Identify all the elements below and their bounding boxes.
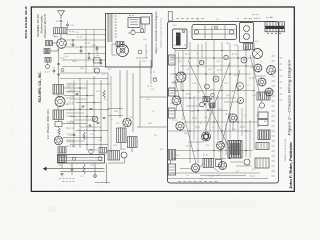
chassis wire h7 xyxy=(168,110,228,112)
bus wire 7 xyxy=(62,66,106,68)
cathode bypass cap C2a xyxy=(57,63,60,65)
socket small b xyxy=(213,76,219,82)
wire coil to V1 xyxy=(60,34,62,39)
cross wire h4 xyxy=(64,109,109,111)
bus wire 5 xyxy=(64,53,106,55)
fig2 bottom extra wires xyxy=(180,168,191,170)
oscillator trimmer C2 xyxy=(66,24,69,26)
right edge label column xyxy=(272,55,275,57)
screen wire vertical xyxy=(132,73,134,132)
tube socket V3 xyxy=(258,78,266,86)
tuning condenser drive assembly xyxy=(192,25,237,40)
fig1 ladder vertical drop a xyxy=(85,30,87,74)
chassis corner tab xyxy=(168,12,172,22)
fig2 socket stub wires xyxy=(180,82,182,91)
cross wire h1 xyxy=(64,87,88,89)
tube socket V8 xyxy=(229,114,237,122)
transformer lead cluster xyxy=(244,44,255,50)
cross wire h8 xyxy=(63,137,101,139)
power transformer bottom blob xyxy=(228,141,242,159)
terminal board caption marks xyxy=(252,14,255,16)
2nd IF transformer T2 xyxy=(53,110,64,120)
inset link wire down xyxy=(150,67,152,84)
condenser section ticks xyxy=(204,26,206,39)
socket h xyxy=(238,98,244,104)
B+ wire vertical xyxy=(119,70,121,118)
inset speaker SPKR xyxy=(117,45,129,57)
coupling cap C11 xyxy=(89,124,92,126)
AVC resistor R3 xyxy=(58,128,61,135)
fig1 to fig2 link wire a xyxy=(140,96,167,98)
wire vertical v2 xyxy=(80,47,82,51)
field coil L3 xyxy=(128,137,138,148)
detector tube V3 6Q7 xyxy=(54,136,62,144)
chassis wire diagonal 1 xyxy=(205,62,230,130)
wire bottom run xyxy=(95,182,110,184)
pilot lamp circle xyxy=(72,157,75,160)
grid resistor R1 xyxy=(46,41,53,46)
cross wire h9 xyxy=(70,144,108,146)
chassis wire h2 xyxy=(170,57,254,59)
wire h output 2 xyxy=(108,115,123,117)
chassis outline xyxy=(168,22,279,184)
dial pointer circle xyxy=(98,157,102,161)
bottom label row fig1 xyxy=(59,178,61,180)
coupling cap C10 xyxy=(82,105,85,107)
transformer terminal circle 1 xyxy=(244,26,250,32)
inset wires xyxy=(132,28,134,31)
chassis wire v2 xyxy=(182,50,184,120)
values label column fig1 xyxy=(67,85,69,87)
chassis wire h9 xyxy=(168,130,249,132)
socket i xyxy=(244,159,250,165)
inset label xyxy=(129,15,131,17)
fig2 extra horizontals xyxy=(172,81,182,83)
cross wire h5 xyxy=(70,116,94,118)
bypass cap C5 xyxy=(88,56,91,58)
bus wire 4 xyxy=(66,46,105,48)
chassis wire v10 xyxy=(245,46,247,157)
hangdown resistor Rc xyxy=(83,164,85,174)
antenna coil shield box xyxy=(173,29,188,49)
grommet a xyxy=(199,60,204,65)
cathode resistor R2 xyxy=(44,49,50,54)
grommet d xyxy=(224,55,228,59)
outside edge labels xyxy=(280,57,283,59)
fig1 to fig2 link wire b xyxy=(137,126,167,128)
hangdown cap Ca xyxy=(61,163,63,169)
wire ant to coil xyxy=(60,22,62,28)
tone control block xyxy=(58,147,66,153)
plate resistor R11 xyxy=(83,132,85,140)
fig1 wire y84 xyxy=(66,83,111,85)
hangdown wire d xyxy=(94,163,96,178)
wire to chassis fig xyxy=(106,163,108,184)
tube socket V6 dark xyxy=(202,132,211,141)
grommet c xyxy=(205,84,210,89)
tube socket V10 xyxy=(219,162,227,170)
wire R1 to V1 xyxy=(53,42,57,44)
electrolytic can C20 xyxy=(253,49,263,59)
chassis wire v7 xyxy=(221,42,223,160)
power switch S1 xyxy=(108,151,120,161)
wires inset to chain xyxy=(105,29,108,31)
fig1 extra caps center xyxy=(76,93,79,95)
right rail terminal strip xyxy=(256,143,269,150)
fig1 extra horizontals xyxy=(66,91,80,93)
fig1 right vertical wire xyxy=(139,60,141,127)
coupling cap C7 xyxy=(100,62,103,64)
cathode chain cap C2b xyxy=(57,73,60,75)
dial lamp left block xyxy=(58,155,66,162)
fig1 extra vertical wire g xyxy=(110,76,112,152)
cross wire h6 xyxy=(62,123,87,125)
bus wire 3 xyxy=(66,39,105,41)
inset extra parts right xyxy=(138,50,142,54)
wire T2 chain xyxy=(58,120,60,122)
wire V4 plate xyxy=(126,70,128,118)
label osc values xyxy=(69,31,71,33)
power supply inset box xyxy=(106,14,153,68)
chassis wire v9 xyxy=(237,46,239,150)
chassis wire diagonal 2 xyxy=(188,60,230,150)
phono wire 2 xyxy=(60,171,105,173)
fig2 bottom strip cluster xyxy=(203,159,214,168)
fig2 extra partial verticals xyxy=(178,52,180,72)
IF can socket K xyxy=(265,88,273,96)
inset rectifier box xyxy=(128,18,140,28)
chassis wire h12 xyxy=(170,172,260,174)
wire vertical v4 xyxy=(96,47,98,48)
socket f xyxy=(237,83,244,90)
tube socket V4 xyxy=(172,96,181,105)
scan shadow left edge xyxy=(10,0,12,226)
antenna coupling cap C1 xyxy=(60,20,63,22)
wire V4 to T4 xyxy=(120,127,122,128)
center grid vertical wire b xyxy=(86,80,88,150)
chassis wire h1 xyxy=(175,50,250,52)
chassis wire h6 xyxy=(178,97,236,99)
chassis wire diagonal 5 xyxy=(223,70,241,141)
terminal board lugs xyxy=(267,33,268,34)
chassis wire h11 xyxy=(172,158,226,160)
spine label xyxy=(60,57,62,59)
osc padder cap C8 xyxy=(94,58,101,63)
phono pickup arrow xyxy=(47,168,105,170)
shield box terminal xyxy=(182,30,185,33)
fig1 ladder vertical drop b xyxy=(93,30,95,74)
power transformer top view xyxy=(240,23,254,43)
right rail grommet xyxy=(259,103,264,108)
transformer terminal circle 2 xyxy=(244,34,250,40)
right rail hatched block 1 xyxy=(257,92,270,100)
fig1 left column extra parts xyxy=(45,58,51,63)
1st IF transformer T1 xyxy=(53,85,64,95)
bypass cap C4 xyxy=(80,50,83,52)
left rail part 2 xyxy=(169,88,176,96)
chassis wire v5 xyxy=(205,42,207,131)
top edge label marks xyxy=(176,18,179,20)
power cord exit xyxy=(170,160,172,164)
bus wire 8 xyxy=(60,72,108,74)
drive pulley top xyxy=(215,26,218,29)
wire vertical v3 xyxy=(88,54,90,58)
paper grain noise xyxy=(0,0,1,1)
drive pulley right xyxy=(229,30,233,34)
center grid vertical wire a xyxy=(79,78,81,148)
bottom inside label row xyxy=(178,181,181,183)
fig1 left extra small cap xyxy=(53,70,56,72)
tube socket V5 xyxy=(176,122,184,130)
chassis wire h4 xyxy=(170,73,251,75)
wire switch right xyxy=(124,158,126,163)
output transformer T4 xyxy=(117,128,127,143)
antenna coil L1 xyxy=(54,28,68,34)
inset parts list text block xyxy=(107,14,109,16)
bus wire 2 xyxy=(66,34,106,36)
chassis wire v3 xyxy=(189,42,191,163)
center grid vertical wire d xyxy=(100,80,102,147)
center grid vertical wire e xyxy=(107,73,109,152)
volume control R9 xyxy=(92,116,98,122)
chassis wire diagonal 3 xyxy=(250,55,262,103)
chassis wire h10 xyxy=(176,150,253,152)
wire vertical v1 xyxy=(72,40,74,44)
fig1 extra vertical wire f xyxy=(73,80,75,148)
bypass cap C3 xyxy=(72,43,75,45)
detector diode parts xyxy=(55,122,62,127)
cross wire h2 xyxy=(64,95,95,97)
chassis wire diagonal 4 xyxy=(175,80,196,164)
left rail part 4 xyxy=(168,164,176,175)
svg-text:RCA PAGE 16-8: RCA PAGE 16-8 xyxy=(24,6,28,38)
antenna terminal board xyxy=(265,22,285,32)
wire R2 junction xyxy=(50,50,58,52)
tube socket V2 xyxy=(254,64,262,72)
fig1 bottom extra parts xyxy=(99,148,107,154)
left rail part 1 xyxy=(169,55,176,65)
grid leak R10 xyxy=(103,90,105,98)
chassis wire v1 xyxy=(174,48,176,98)
chassis wire v4 xyxy=(197,44,199,163)
IF amp tube V2 6K7 xyxy=(55,97,65,107)
tube socket V1 xyxy=(176,72,186,82)
chassis wire h13 xyxy=(168,178,268,180)
wire T4 bottom xyxy=(120,143,122,151)
chassis tiny labels xyxy=(185,53,187,55)
page border frame xyxy=(31,7,294,191)
antenna coil core bar xyxy=(176,33,181,46)
inset cap circle xyxy=(140,29,144,33)
junction dots center xyxy=(79,87,80,88)
screen cap C6 xyxy=(96,47,99,49)
wire T1 to V2 xyxy=(57,94,59,97)
inset output transformer xyxy=(116,42,124,47)
grommet g xyxy=(200,102,205,107)
tube socket V9 xyxy=(191,164,199,172)
chassis wire v8 xyxy=(229,44,231,139)
right rail dark block xyxy=(258,130,270,140)
chassis wire h5 xyxy=(168,90,253,92)
chassis wire h3 xyxy=(180,65,253,67)
chassis wire v11 xyxy=(253,58,255,150)
tube socket V7 xyxy=(217,142,225,150)
wire V2 to T2 xyxy=(57,107,59,111)
fig2 left rail part 3 xyxy=(169,108,176,118)
scan smudge below page xyxy=(47,206,56,212)
dial lamp assembly xyxy=(58,155,105,164)
antenna ANT xyxy=(58,11,65,19)
socket e xyxy=(241,57,247,63)
left rail dark block xyxy=(168,150,176,161)
spine grommet xyxy=(61,69,64,72)
IF can socket J xyxy=(267,66,276,75)
cross wire h3 xyxy=(76,102,101,104)
hangdown cap Cb xyxy=(71,163,73,175)
below page faint smear xyxy=(175,199,255,207)
output tube V4 6F6 xyxy=(123,118,131,126)
inset bottom parts xyxy=(150,71,152,73)
wire h output xyxy=(108,108,123,110)
fig1 ladder extra wire xyxy=(60,78,108,80)
svg-text:RCA 9T-60,61,62: RCA 9T-60,61,62 xyxy=(284,138,287,161)
chassis junction dots xyxy=(189,57,190,58)
inset filter box xyxy=(141,17,150,24)
chassis wire h8 xyxy=(184,121,257,123)
switch knob xyxy=(121,152,127,158)
drive pulley left xyxy=(194,30,198,34)
osc coil L2 xyxy=(95,68,100,73)
chassis wire v6 xyxy=(213,40,215,158)
wire vertical v5 xyxy=(100,60,102,63)
RF amp tube V1 6K7 xyxy=(57,39,67,49)
inset choke circle xyxy=(131,30,135,34)
right rail lug strip 2 xyxy=(255,158,269,168)
V1 cathode chain wire xyxy=(58,48,60,84)
fig2 center component cluster xyxy=(203,97,210,102)
bus wire 6 xyxy=(62,59,106,61)
bus wire 1 xyxy=(66,29,106,31)
junction dots bus xyxy=(72,39,73,40)
right rail resistor board xyxy=(258,112,268,119)
cross wire h7 xyxy=(76,130,108,132)
center grid vertical wire c xyxy=(93,76,95,150)
